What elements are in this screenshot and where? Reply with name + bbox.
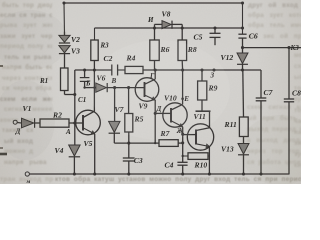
svg-text:Б: Б: [85, 80, 91, 88]
svg-text:м: м: [26, 179, 31, 184]
svg-text:V4: V4: [55, 146, 64, 155]
svg-text:R11: R11: [224, 120, 237, 129]
svg-text:R3: R3: [100, 42, 110, 50]
svg-text:C6: C6: [249, 32, 258, 41]
svg-text:V8: V8: [162, 10, 171, 19]
svg-text:КЗ: КЗ: [290, 44, 300, 52]
svg-text:V5: V5: [84, 139, 93, 148]
svg-text:V3: V3: [71, 47, 80, 56]
svg-text:C5: C5: [194, 33, 203, 42]
svg-text:C7: C7: [264, 88, 274, 97]
svg-text:V2: V2: [71, 35, 80, 44]
svg-text:А: А: [65, 128, 71, 136]
svg-text:C3: C3: [134, 156, 143, 165]
svg-text:V13: V13: [221, 145, 234, 154]
svg-text:C4: C4: [165, 161, 174, 170]
svg-text:R10: R10: [194, 161, 208, 170]
svg-text:R1: R1: [39, 77, 48, 85]
svg-text:C1: C1: [78, 96, 86, 104]
svg-text:C8: C8: [292, 89, 301, 98]
svg-text:V12: V12: [221, 53, 234, 62]
svg-text:И: И: [147, 16, 154, 24]
